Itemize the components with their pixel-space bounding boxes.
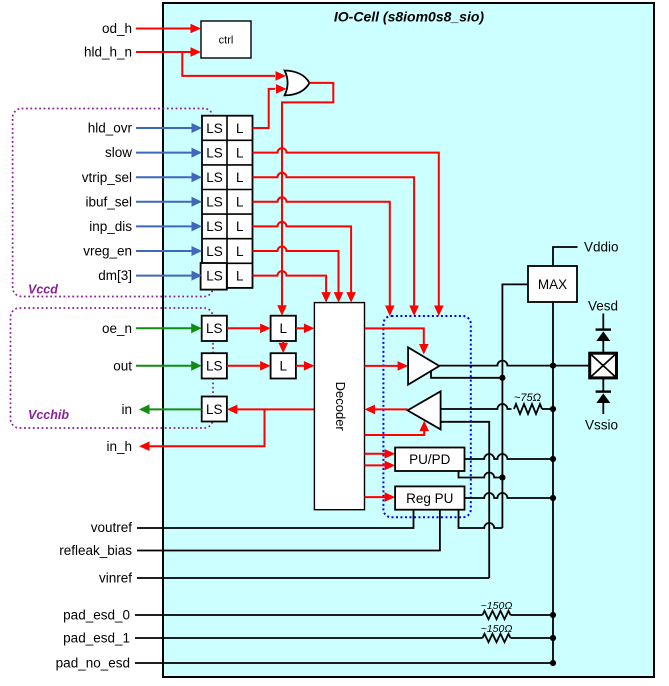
svg-text:PU/PD: PU/PD <box>409 452 451 467</box>
resistor ~75 ohm <box>514 404 542 414</box>
wire PU/PD to MAX net <box>459 471 503 478</box>
wire OR gate output to latch L oe_n <box>277 83 333 316</box>
wire input buffer reference to vinref <box>441 422 490 578</box>
power domain box Vccd <box>13 109 213 297</box>
svg-text:Vccd: Vccd <box>28 283 58 297</box>
wire inp_dis blue arrow to LS <box>136 221 202 231</box>
Reg PU block <box>395 486 464 509</box>
wire refleak_bias to Reg PU <box>137 510 440 551</box>
junction pad rail / PU-PD <box>550 456 556 462</box>
svg-text:LS: LS <box>206 195 223 210</box>
svg-text:ibuf_sel: ibuf_sel <box>85 194 132 209</box>
wire vinref <box>137 577 489 579</box>
wire Decoder to driver enable (top) <box>365 328 429 354</box>
dm[3] LS cell highlight box <box>201 263 227 290</box>
svg-text:LS: LS <box>206 121 223 136</box>
wire voutref to Reg PU <box>137 510 414 528</box>
wire Decoder to LS in <box>227 405 315 415</box>
svg-text:slow: slow <box>105 145 132 160</box>
wire LS out to L <box>227 361 271 371</box>
svg-text:inp_dis: inp_dis <box>89 219 132 234</box>
svg-text:L: L <box>236 170 244 185</box>
svg-text:vinref: vinref <box>99 571 132 586</box>
wire in green arrow out of LS <box>139 404 202 414</box>
wire out green arrow <box>136 361 202 371</box>
wire dm[3] blue arrow to LS <box>136 271 202 281</box>
svg-text:vtrip_sel: vtrip_sel <box>82 170 132 185</box>
svg-text:IO-Cell (s8iom0s8_sio): IO-Cell (s8iom0s8_sio) <box>334 9 485 25</box>
wire MAX output net <box>502 284 528 528</box>
wire vtrip_sel blue arrow to LS <box>136 172 202 182</box>
latch L out <box>271 353 296 378</box>
IO-Cell boundary <box>163 3 654 677</box>
wire hld_h_n to ctrl <box>136 47 201 57</box>
wire hld_h_n branch to OR gate input 1 <box>182 52 286 81</box>
level shifter LS out <box>202 353 227 378</box>
svg-text:out: out <box>113 358 132 373</box>
wire ibuf_sel L output routed down <box>253 197 395 316</box>
svg-text:L: L <box>236 145 244 160</box>
svg-text:in: in <box>121 402 132 417</box>
wire pad_no_esd <box>135 662 553 664</box>
svg-text:pad_esd_0: pad_esd_0 <box>63 608 130 623</box>
svg-text:hld_ovr: hld_ovr <box>88 121 133 136</box>
wire hld_ovr L output to OR gate input 2 <box>253 84 287 128</box>
wire od_h to ctrl <box>136 24 201 34</box>
svg-text:Vesd: Vesd <box>588 299 618 314</box>
junction pad rail / pad_esd_0 <box>550 612 556 618</box>
wire Decoder to driver input <box>365 361 409 371</box>
svg-text:LS: LS <box>206 145 223 160</box>
svg-text:pad_esd_1: pad_esd_1 <box>63 631 130 646</box>
latch L oe_n <box>271 316 296 341</box>
svg-text:L: L <box>279 359 287 374</box>
wire slow blue arrow to LS <box>136 148 202 158</box>
PU/PD block <box>395 448 464 472</box>
svg-text:vreg_en: vreg_en <box>83 244 132 259</box>
svg-text:LS: LS <box>206 268 223 283</box>
input buffer <box>408 391 441 429</box>
svg-text:refleak_bias: refleak_bias <box>59 543 132 558</box>
wire oe_n green arrow <box>136 323 202 333</box>
wire driver bulk to MAX net <box>431 371 502 378</box>
junction MAX net / driver bulk <box>499 375 505 381</box>
wire dm[3] L output routed down <box>253 271 331 303</box>
svg-text:~150Ω: ~150Ω <box>481 623 513 635</box>
wire hld_ovr blue arrow to LS <box>136 123 202 133</box>
output driver buffer <box>408 347 439 384</box>
wire pad rail <box>552 366 554 663</box>
wire slow L output routed down <box>253 148 444 316</box>
svg-text:Reg PU: Reg PU <box>406 491 453 506</box>
level shifter LS oe_n <box>202 316 227 341</box>
svg-text:dm[3]: dm[3] <box>98 268 132 283</box>
junction pad rail / buffer input <box>550 406 556 412</box>
svg-text:Decoder: Decoder <box>333 382 348 432</box>
wire L oe_n to Decoder <box>296 324 315 334</box>
svg-text:ctrl: ctrl <box>219 35 234 47</box>
wire Reg PU to MAX net <box>459 510 503 528</box>
wire ibuf_sel blue arrow to LS <box>136 197 202 207</box>
svg-text:pad_no_esd: pad_no_esd <box>56 656 130 671</box>
ctrl block <box>201 21 251 58</box>
wire vreg_en L output routed down <box>253 247 344 303</box>
wire vreg_en blue arrow to LS <box>136 246 202 256</box>
wire Decoder to Reg PU control <box>365 492 396 502</box>
resistor ~150 ohm (pad_esd_1) <box>483 634 511 642</box>
level shifter LS in <box>202 397 227 422</box>
svg-text:LS: LS <box>206 321 223 336</box>
wire L out to Decoder <box>296 361 315 371</box>
Decoder block <box>314 303 364 510</box>
resistor ~150 ohm (pad_esd_0) <box>483 611 511 619</box>
junction pad rail / Reg PU <box>550 495 556 501</box>
svg-text:oe_n: oe_n <box>102 321 132 336</box>
svg-text:LS: LS <box>206 402 223 417</box>
wire pad to input buffer through resistor <box>441 404 512 409</box>
svg-text:L: L <box>236 219 244 234</box>
svg-text:L: L <box>236 195 244 210</box>
svg-text:LS: LS <box>206 219 223 234</box>
wire pad_esd_0 <box>135 614 483 616</box>
svg-text:Vddio: Vddio <box>584 240 619 255</box>
svg-text:~75Ω: ~75Ω <box>514 392 541 404</box>
wire driver output to pad <box>439 361 589 366</box>
svg-text:MAX: MAX <box>538 277 567 292</box>
wire Reg PU to pad rail <box>465 493 554 498</box>
svg-text:~150Ω: ~150Ω <box>481 600 513 612</box>
svg-text:LS: LS <box>206 170 223 185</box>
wire inp_dis L output routed down <box>253 222 356 303</box>
svg-text:od_h: od_h <box>102 21 132 36</box>
power domain box Vcchib <box>11 308 214 428</box>
junction pad rail / driver output <box>550 363 556 369</box>
wire MAX to pad line <box>552 302 554 366</box>
wire in_h branch <box>139 409 265 451</box>
wire Vddio to MAX <box>553 247 578 266</box>
svg-text:LS: LS <box>206 359 223 374</box>
diode to Vssio <box>596 378 611 414</box>
junction pad rail / pad_esd_1 <box>550 635 556 641</box>
wire L oe_n down to L out <box>278 341 288 353</box>
junction pad rail / pad_no_esd <box>550 660 556 666</box>
wire pad_esd_1 <box>135 637 483 639</box>
wire vtrip_sel L output routed down <box>253 173 419 316</box>
wire LS oe_n to L <box>227 324 271 334</box>
wire Decoder to PU/PD control 2 <box>365 461 396 471</box>
svg-text:voutref: voutref <box>91 520 133 535</box>
level shifter stack LS|L rows <box>202 116 253 288</box>
svg-text:Vssio: Vssio <box>585 418 618 433</box>
wire PU/PD to pad rail <box>465 454 554 459</box>
svg-text:in_h: in_h <box>106 439 132 454</box>
svg-text:L: L <box>236 268 244 283</box>
diode to Vesd <box>596 314 611 354</box>
MAX block <box>528 266 577 302</box>
svg-text:LS: LS <box>206 244 223 259</box>
svg-text:Vcchib: Vcchib <box>28 408 69 422</box>
svg-text:L: L <box>236 121 244 136</box>
pad cell (ESD pad) <box>590 353 617 378</box>
wire Decoder to PU/PD control 1 <box>365 449 396 459</box>
svg-text:L: L <box>279 321 287 336</box>
OR gate U1 <box>285 71 310 96</box>
wire input buffer to Decoder (in path) <box>365 405 408 415</box>
driver section dashed box <box>383 316 470 517</box>
svg-text:L: L <box>236 244 244 259</box>
svg-text:hld_h_n: hld_h_n <box>84 45 132 60</box>
junction MAX net / PU-PD <box>499 474 505 480</box>
wire Decoder to input buffer control <box>365 421 430 435</box>
